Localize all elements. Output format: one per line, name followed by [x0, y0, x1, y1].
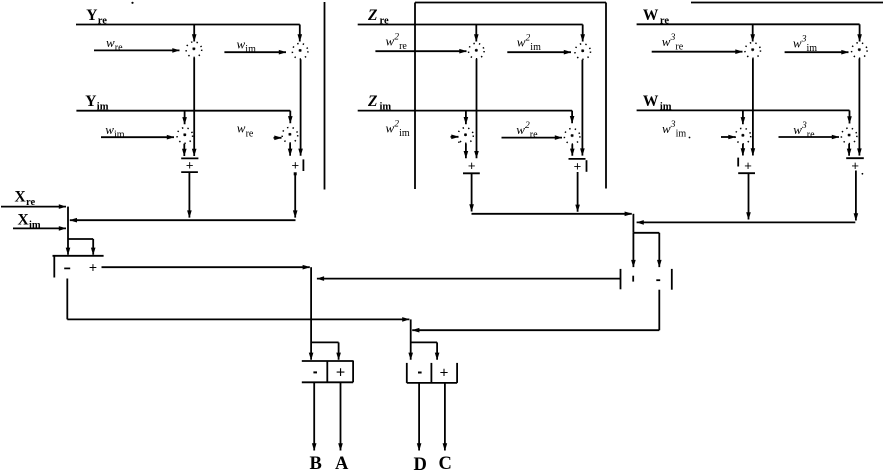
wire w3_re arrow into M12 — [779, 135, 840, 140]
svg-text:re: re — [115, 43, 123, 54]
svg-text:X: X — [15, 189, 27, 206]
node Q vertical — [408, 319, 413, 359]
svg-text:X: X — [18, 212, 30, 229]
svg-text:w: w — [106, 35, 115, 50]
wire W bus return line — [637, 220, 856, 225]
box F1 subtract-add — [53, 256, 104, 278]
wire Q branch to C input — [411, 342, 440, 359]
wire branch into box F1 — [68, 239, 93, 248]
node A label — [335, 454, 349, 474]
svg-text:+: + — [468, 158, 476, 173]
wire Y bus return line — [70, 218, 296, 223]
svg-text:im: im — [245, 44, 256, 55]
multiplier M2 — [292, 43, 308, 59]
multiplier M7 — [458, 128, 474, 144]
wire M2 output down to adder S2 — [298, 59, 303, 155]
svg-text:w: w — [793, 35, 802, 50]
multiplier M10 — [852, 43, 868, 59]
wire arrow into F1 minus — [66, 239, 71, 255]
multiplier M3 — [177, 128, 193, 144]
wire Y_im drop to multiplier M3 — [182, 111, 187, 125]
adder S2 plus — [292, 158, 304, 176]
svg-text:im: im — [399, 128, 410, 139]
svg-text:+: + — [574, 158, 582, 173]
wire left junction vertical — [67, 207, 69, 239]
node D label — [414, 455, 427, 475]
wire Z_re horizontal — [358, 24, 583, 26]
wire M7 output into adder S3 — [464, 144, 469, 159]
wire M6 output down to adder S4 — [580, 60, 585, 156]
svg-text:w: w — [386, 33, 395, 48]
wire B output arrow — [312, 382, 317, 450]
node Y_im label — [85, 93, 108, 112]
svg-text:w: w — [517, 34, 526, 49]
node P vertical — [309, 267, 314, 360]
adder S5 plus — [738, 158, 755, 174]
wire M11 output into adder S5 — [741, 144, 746, 155]
wire F2 left output to node P — [317, 276, 621, 281]
wire M4 output into adder S2 — [288, 143, 293, 156]
wire S5 output to W bus — [746, 173, 751, 219]
w_im label lower — [105, 122, 125, 141]
node Z_re label — [367, 7, 389, 26]
node W_re label — [643, 7, 669, 26]
adder S1 plus — [181, 158, 198, 173]
svg-text:+: + — [336, 365, 345, 382]
wire W_re drop to multiplier M9 — [750, 24, 755, 41]
node Y_re label — [86, 7, 107, 26]
wire S3 output to Z bus — [469, 173, 474, 211]
stray scan dot 1 — [131, 2, 133, 4]
wire w_re arrow into M1 — [94, 48, 180, 53]
wire M10 output down to adder S6 — [857, 59, 862, 156]
w3_im label — [793, 35, 817, 55]
multiplier M8 — [564, 129, 580, 145]
wire M3 output into adder S1 — [182, 144, 187, 156]
svg-text:Z: Z — [367, 7, 378, 24]
svg-text:re: re — [246, 128, 254, 139]
w_re label lower — [237, 121, 254, 140]
w2_im label — [517, 34, 541, 54]
wire w2_re arrow into M8 — [502, 135, 563, 140]
wire w_im arrow into M3 — [101, 135, 174, 140]
stray scan dot 4 — [458, 141, 460, 143]
svg-text:w: w — [516, 122, 525, 137]
wire M8 output into adder S4 — [570, 144, 575, 155]
svg-text:w: w — [386, 120, 395, 135]
wire W_im drop to multiplier M11 — [741, 110, 746, 124]
wire S2 output to X bus — [293, 173, 298, 218]
multiplier M1 — [186, 42, 202, 58]
svg-text:D: D — [414, 455, 427, 475]
w3_re label — [662, 33, 684, 53]
w_re label — [106, 35, 123, 54]
wire C output arrow — [443, 383, 448, 451]
wire Z_im drop to multiplier M8 — [570, 111, 575, 124]
wire A output arrow — [338, 382, 343, 450]
wire right junction vertical — [632, 214, 634, 233]
svg-text:w: w — [662, 34, 671, 49]
node Z_im label — [367, 93, 391, 112]
svg-text:w: w — [237, 121, 246, 136]
stray scan dot 2 — [689, 137, 691, 139]
net separator bar 1 — [324, 2, 326, 190]
frame top line of W block — [691, 2, 883, 4]
wire Y_re horizontal — [76, 24, 300, 26]
node W_im label — [643, 93, 672, 112]
svg-text:A: A — [335, 454, 349, 474]
svg-text:W: W — [643, 93, 659, 110]
node C label — [439, 454, 452, 474]
w2_re label — [386, 33, 408, 53]
wire S4 output to Z bus — [575, 172, 580, 212]
wire Y_im drop to multiplier M4 — [288, 111, 293, 124]
wire Z_re drop to multiplier M5 — [474, 25, 479, 42]
wire P branch to A input — [311, 342, 341, 359]
wire short arrow into M11 — [721, 135, 736, 140]
svg-text:C: C — [439, 454, 452, 474]
box F2 subtract-add — [621, 269, 672, 290]
box F3 subtract-add B/A — [302, 361, 353, 383]
wire W_im horizontal — [637, 109, 850, 111]
wire S1 output to X bus — [187, 172, 192, 218]
svg-text:+: + — [186, 158, 194, 173]
svg-text:re: re — [530, 130, 538, 141]
node B label — [310, 454, 322, 474]
svg-text:im: im — [114, 130, 125, 141]
wire W_im drop to multiplier M12 — [847, 110, 852, 123]
wire X_re input arrow — [1, 204, 66, 209]
wire M1 output down to adder S1 — [192, 58, 197, 156]
w2_im label lower — [386, 120, 410, 140]
wire F1 minus output to node Q — [67, 279, 409, 322]
wire F2 right output to node Q — [412, 290, 659, 333]
box F4 subtract-add D/C — [407, 363, 457, 383]
wire w2_re arrow into M5 — [375, 49, 466, 54]
wire M5 output down to adder S3 — [474, 59, 479, 158]
adder S3 plus — [463, 158, 480, 174]
wire Z_im drop to multiplier M7 — [464, 111, 469, 125]
wire branch into box F2 — [633, 233, 659, 248]
wire short arrow into M7 — [451, 135, 459, 140]
adder S4 plus — [569, 158, 587, 173]
stray scan dot 3 — [862, 173, 864, 175]
wire Y_im horizontal — [76, 110, 290, 112]
wire W_re drop to multiplier M10 — [857, 24, 862, 41]
wire Y_re drop to multiplier M1 — [192, 25, 197, 42]
multiplier M12 — [841, 128, 857, 144]
svg-text:+: + — [440, 365, 449, 382]
wire w_im arrow into M2 — [224, 50, 286, 55]
wire Y_re drop to multiplier M2 — [298, 25, 303, 42]
wire D output arrow — [417, 383, 422, 451]
multiplier M9 — [745, 43, 761, 59]
svg-text:re: re — [807, 130, 815, 141]
node X_im label — [18, 212, 41, 231]
wire Z_im horizontal — [358, 110, 572, 112]
wire w2_im arrow into M6 — [507, 50, 571, 55]
w3_re label lower — [793, 121, 815, 141]
w3_im label lower — [662, 120, 686, 140]
wire arrow into F1 plus — [91, 248, 96, 255]
multiplier M4 — [282, 127, 298, 143]
svg-text:w: w — [237, 36, 246, 51]
wire short arrow into M4 — [274, 136, 282, 141]
svg-text:Y: Y — [86, 7, 97, 24]
svg-text:im: im — [676, 129, 687, 140]
wire w3_re arrow into M9 — [652, 49, 743, 54]
node X_re label — [15, 189, 36, 208]
wire M9 output down to adder S5 — [751, 59, 756, 156]
svg-text:B: B — [310, 454, 322, 474]
svg-text:Y: Y — [85, 93, 96, 110]
w_im label — [237, 36, 257, 55]
adder S6 plus — [846, 158, 864, 173]
wire M12 output into adder S6 — [847, 144, 852, 156]
svg-text:+: + — [744, 158, 752, 173]
svg-text:W: W — [643, 7, 659, 24]
svg-text:+: + — [89, 259, 97, 275]
w2_re label lower — [516, 121, 538, 141]
wire W_re horizontal — [637, 23, 860, 25]
svg-text:Z: Z — [367, 93, 378, 110]
svg-text:w: w — [105, 122, 114, 137]
wire Z_re drop to multiplier M6 — [580, 25, 585, 42]
wire arrow into F2 left — [631, 233, 636, 267]
svg-text:w: w — [793, 122, 802, 137]
wire F1 plus output to node P — [102, 265, 310, 270]
wire S6 output to W bus — [854, 171, 859, 221]
svg-text:+: + — [292, 158, 300, 173]
multiplier M11 — [735, 128, 751, 144]
wire w3_im arrow into M10 — [785, 50, 849, 55]
wire Z bus line — [472, 212, 632, 217]
svg-text:w: w — [662, 121, 671, 136]
wire X_im input arrow — [13, 226, 66, 231]
multiplier M5 — [469, 43, 485, 59]
multiplier M6 — [575, 44, 591, 60]
wire arrow into F2 right — [657, 248, 662, 267]
frame around Z block — [415, 3, 606, 190]
